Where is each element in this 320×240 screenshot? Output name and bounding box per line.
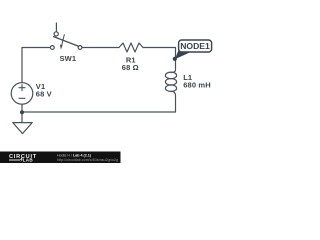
svg-text:68 V: 68 V	[36, 90, 52, 99]
svg-text:NODE1: NODE1	[180, 41, 210, 51]
svg-text:Hodis H / Lab 4 (2.1): Hodis H / Lab 4 (2.1)	[57, 153, 92, 157]
svg-text:680 mH: 680 mH	[183, 81, 211, 90]
svg-text:SW1: SW1	[59, 54, 76, 63]
svg-text:LAB: LAB	[23, 158, 34, 163]
svg-text:http://circuitlab.com/c/83smsu: http://circuitlab.com/c/83smsu2gho2g	[57, 158, 118, 162]
svg-text:68 Ω: 68 Ω	[122, 63, 139, 72]
